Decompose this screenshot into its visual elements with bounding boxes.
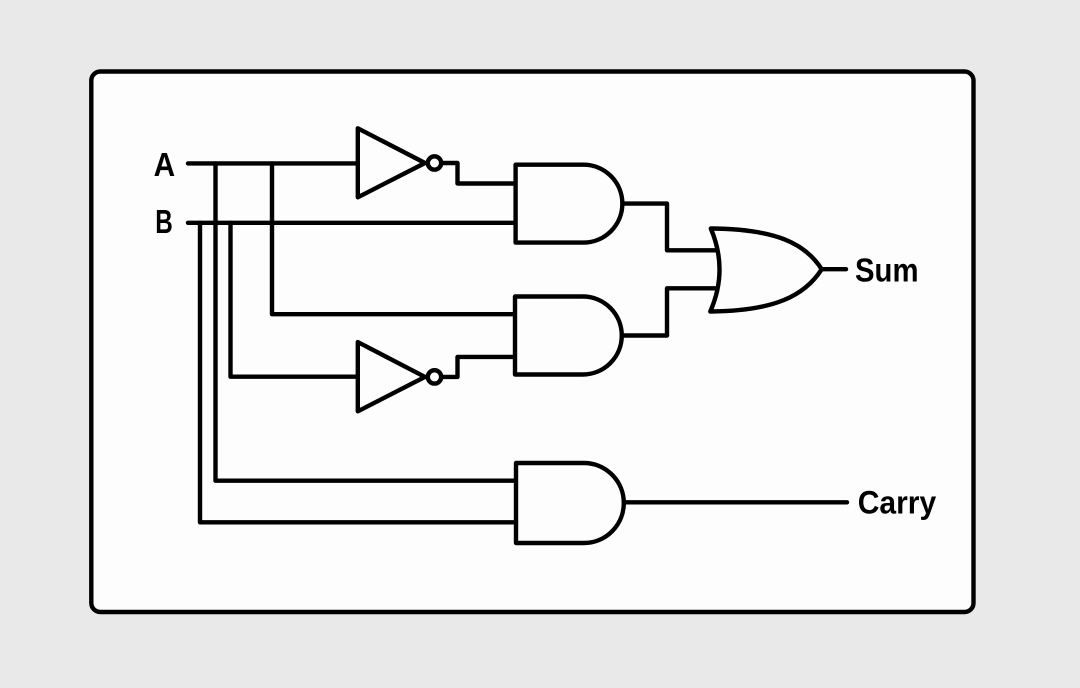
svg-text:A: A xyxy=(154,146,176,183)
svg-text:Carry: Carry xyxy=(858,484,937,520)
svg-text:Sum: Sum xyxy=(855,251,919,288)
svg-text:B: B xyxy=(155,203,173,240)
